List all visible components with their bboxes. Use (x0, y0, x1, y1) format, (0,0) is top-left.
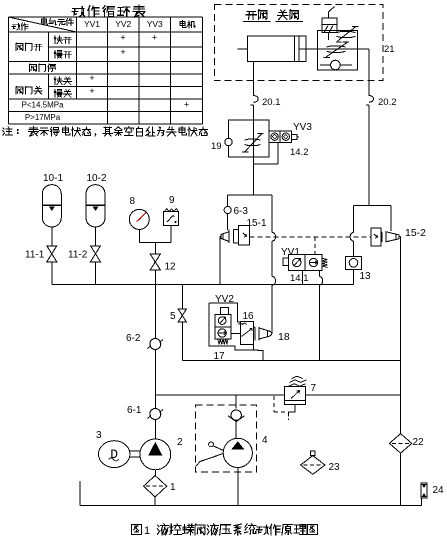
dashed enclosure 21 (215, 4, 383, 80)
svg-text:11-1: 11-1 (25, 250, 45, 261)
manifold box 15-2 (354, 205, 392, 207)
solenoid valve YV2 (215, 308, 231, 345)
table header texts (42, 18, 74, 25)
pilot branch to valve 14.1 (314, 237, 316, 255)
svg-text:+: + (120, 47, 125, 57)
table row labels (16, 43, 42, 51)
dashed enclosure hand pump 4 (196, 405, 257, 472)
svg-text:3: 3 (96, 430, 102, 441)
label 关阀 with underline (276, 10, 303, 22)
wire pump 4 to tank (237, 468, 239, 506)
wire 6-2 to 6-1 (154, 350, 156, 409)
port circle 19 (225, 138, 232, 145)
svg-text:YV3: YV3 (293, 122, 312, 133)
throttle symbol in box 19 (242, 134, 264, 152)
filter 22 (389, 434, 411, 454)
accumulator 10-2 (86, 185, 105, 227)
wire manifold left edge down to 13 with hop (353, 206, 355, 233)
quick coupling 20.1 (254, 96, 259, 103)
action cycle table grid (9, 17, 203, 124)
wire box19 to manifold (253, 157, 255, 195)
filter 1 (144, 476, 167, 497)
svg-text:P>17MPa: P>17MPa (25, 113, 61, 122)
wire 10-1 to valve (51, 227, 53, 246)
wire 6-1 to pump 2 (154, 420, 156, 440)
svg-text:5: 5 (170, 311, 176, 322)
hand pump 4 (196, 438, 252, 467)
svg-text:4: 4 (262, 435, 268, 446)
pressure gauge 8 (129, 209, 149, 229)
manifold top wire (228, 194, 272, 196)
restrictor box 16 (239, 321, 254, 344)
wire check to pump 4 (235, 422, 237, 439)
wire valve 14.2 bypass (277, 143, 279, 164)
cartridge valve 15-2 (371, 228, 399, 246)
coupling motor-pump (130, 450, 141, 452)
svg-text:14.2: 14.2 (290, 147, 309, 158)
svg-text:18: 18 (278, 331, 290, 343)
svg-text:YV3: YV3 (147, 19, 163, 29)
solenoid valve 14.2 YV3 (269, 131, 299, 143)
cartridge valve 15-1 (221, 226, 249, 245)
svg-text:21: 21 (384, 44, 395, 55)
check valve above pump 4 (228, 410, 245, 422)
svg-text:1: 1 (170, 482, 176, 493)
note line (3, 127, 18, 135)
test point 6-2 (148, 339, 164, 350)
svg-text:17: 17 (214, 351, 226, 362)
label 开阀 with underline (243, 10, 271, 22)
svg-text:+: + (120, 33, 125, 43)
pump 2 (140, 439, 171, 470)
svg-text:8: 8 (130, 196, 136, 207)
svg-text:9: 9 (169, 195, 175, 206)
throttle box 19 (229, 120, 270, 157)
throttle-check valve block on cylinder (318, 7, 359, 70)
svg-text:+: + (152, 33, 157, 43)
pilot dashed line (249, 236, 370, 238)
accumulator 10-1 (42, 185, 61, 227)
svg-text:15-2: 15-2 (405, 227, 426, 239)
wire left branch to valve 15-1 (227, 195, 229, 230)
svg-text:19: 19 (211, 141, 222, 152)
test point 6-3 (224, 206, 231, 213)
solenoid valve 14.1 YV1 (283, 255, 327, 271)
wire 20.1 to throttle box 19 (253, 106, 255, 120)
hydraulic cylinder (238, 36, 318, 62)
wire accumulator 10-2 branch (95, 262, 97, 285)
svg-text:13: 13 (360, 271, 372, 282)
shutoff valve 5 (178, 309, 187, 322)
svg-text:11-2: 11-2 (68, 250, 88, 261)
shutoff valve 11-2 (91, 246, 101, 262)
shutoff valve 12 (150, 254, 160, 270)
right branch wire with hops (271, 195, 273, 232)
svg-text:P<14.5MPa: P<14.5MPa (21, 101, 64, 110)
wire 14.1 port A (302, 270, 304, 284)
air breather 23 (301, 451, 325, 475)
wire cylinder to right corner (358, 48, 369, 50)
wire 15-2 to right main (399, 236, 401, 238)
wire 15-1 to main line (220, 236, 221, 238)
caption (131, 524, 141, 534)
quick coupling 20.2 (369, 96, 374, 103)
svg-text:2: 2 (177, 437, 183, 448)
svg-text:6-1: 6-1 (127, 405, 142, 416)
wire filter 1 to tank (154, 497, 156, 506)
wire relief line (155, 394, 284, 396)
level gauge 24 (421, 483, 427, 498)
svg-text:6-2: 6-2 (126, 333, 141, 344)
electric motor 3 (99, 441, 130, 468)
svg-text:10-2: 10-2 (87, 173, 107, 184)
svg-text:20.2: 20.2 (378, 97, 397, 108)
relief valve pilot dashed (273, 396, 275, 412)
wire 13 to main line (353, 269, 355, 284)
svg-text:10-1: 10-1 (43, 173, 63, 184)
svg-text:YV1: YV1 (84, 19, 100, 29)
svg-text:12: 12 (165, 262, 177, 273)
wire main line down to 6-2 (154, 285, 156, 339)
test point 6-1 (148, 409, 164, 420)
svg-text:22: 22 (413, 437, 425, 448)
wire gauge+switch to line (138, 229, 140, 242)
svg-text:20.1: 20.1 (262, 97, 281, 108)
main pressure line (52, 284, 354, 286)
wire valve 12 to main line (154, 270, 156, 285)
check valve 13 (346, 256, 362, 269)
svg-text:+: + (89, 86, 94, 96)
wire cylinder bottom port (253, 62, 255, 96)
svg-text:YV1: YV1 (281, 247, 300, 258)
relief valve 7 (285, 376, 307, 404)
shutoff valve 11-1 (47, 246, 57, 262)
wire 14.1 port B with hop (318, 270, 320, 276)
svg-text:14.1: 14.1 (290, 273, 309, 284)
table title 动作循环表 (72, 5, 145, 17)
svg-text:+: + (184, 100, 189, 110)
pressure switch 9 (164, 209, 179, 226)
line through box 19 vertical (253, 120, 255, 157)
svg-text:23: 23 (329, 462, 341, 473)
svg-text:7: 7 (311, 383, 317, 394)
manifold outline 17 (209, 303, 241, 322)
relief valve drain (289, 405, 296, 414)
svg-text:+: + (89, 73, 94, 83)
wire valve 5 branch (181, 285, 183, 309)
wire 18 drain (254, 350, 263, 361)
svg-text:6-3: 6-3 (234, 206, 249, 217)
svg-text:24: 24 (433, 485, 445, 496)
svg-text:16: 16 (243, 311, 255, 322)
wire 16 bottom (253, 345, 255, 350)
tank line (80, 505, 421, 507)
svg-text:YV2: YV2 (115, 19, 131, 29)
wire 10-2 to valve (95, 227, 97, 246)
wire filter 22 to tank (400, 453, 402, 505)
wire pump 4 discharge (235, 395, 237, 409)
cartridge valve 18 (254, 327, 273, 341)
svg-text:1: 1 (144, 525, 150, 537)
wire pump 2 to filter 1 (154, 470, 156, 476)
wire accumulator 10-1 branch (51, 262, 53, 285)
wire YV2 to box 16 (231, 333, 241, 335)
wire valve 5 to drain line (181, 322, 183, 361)
